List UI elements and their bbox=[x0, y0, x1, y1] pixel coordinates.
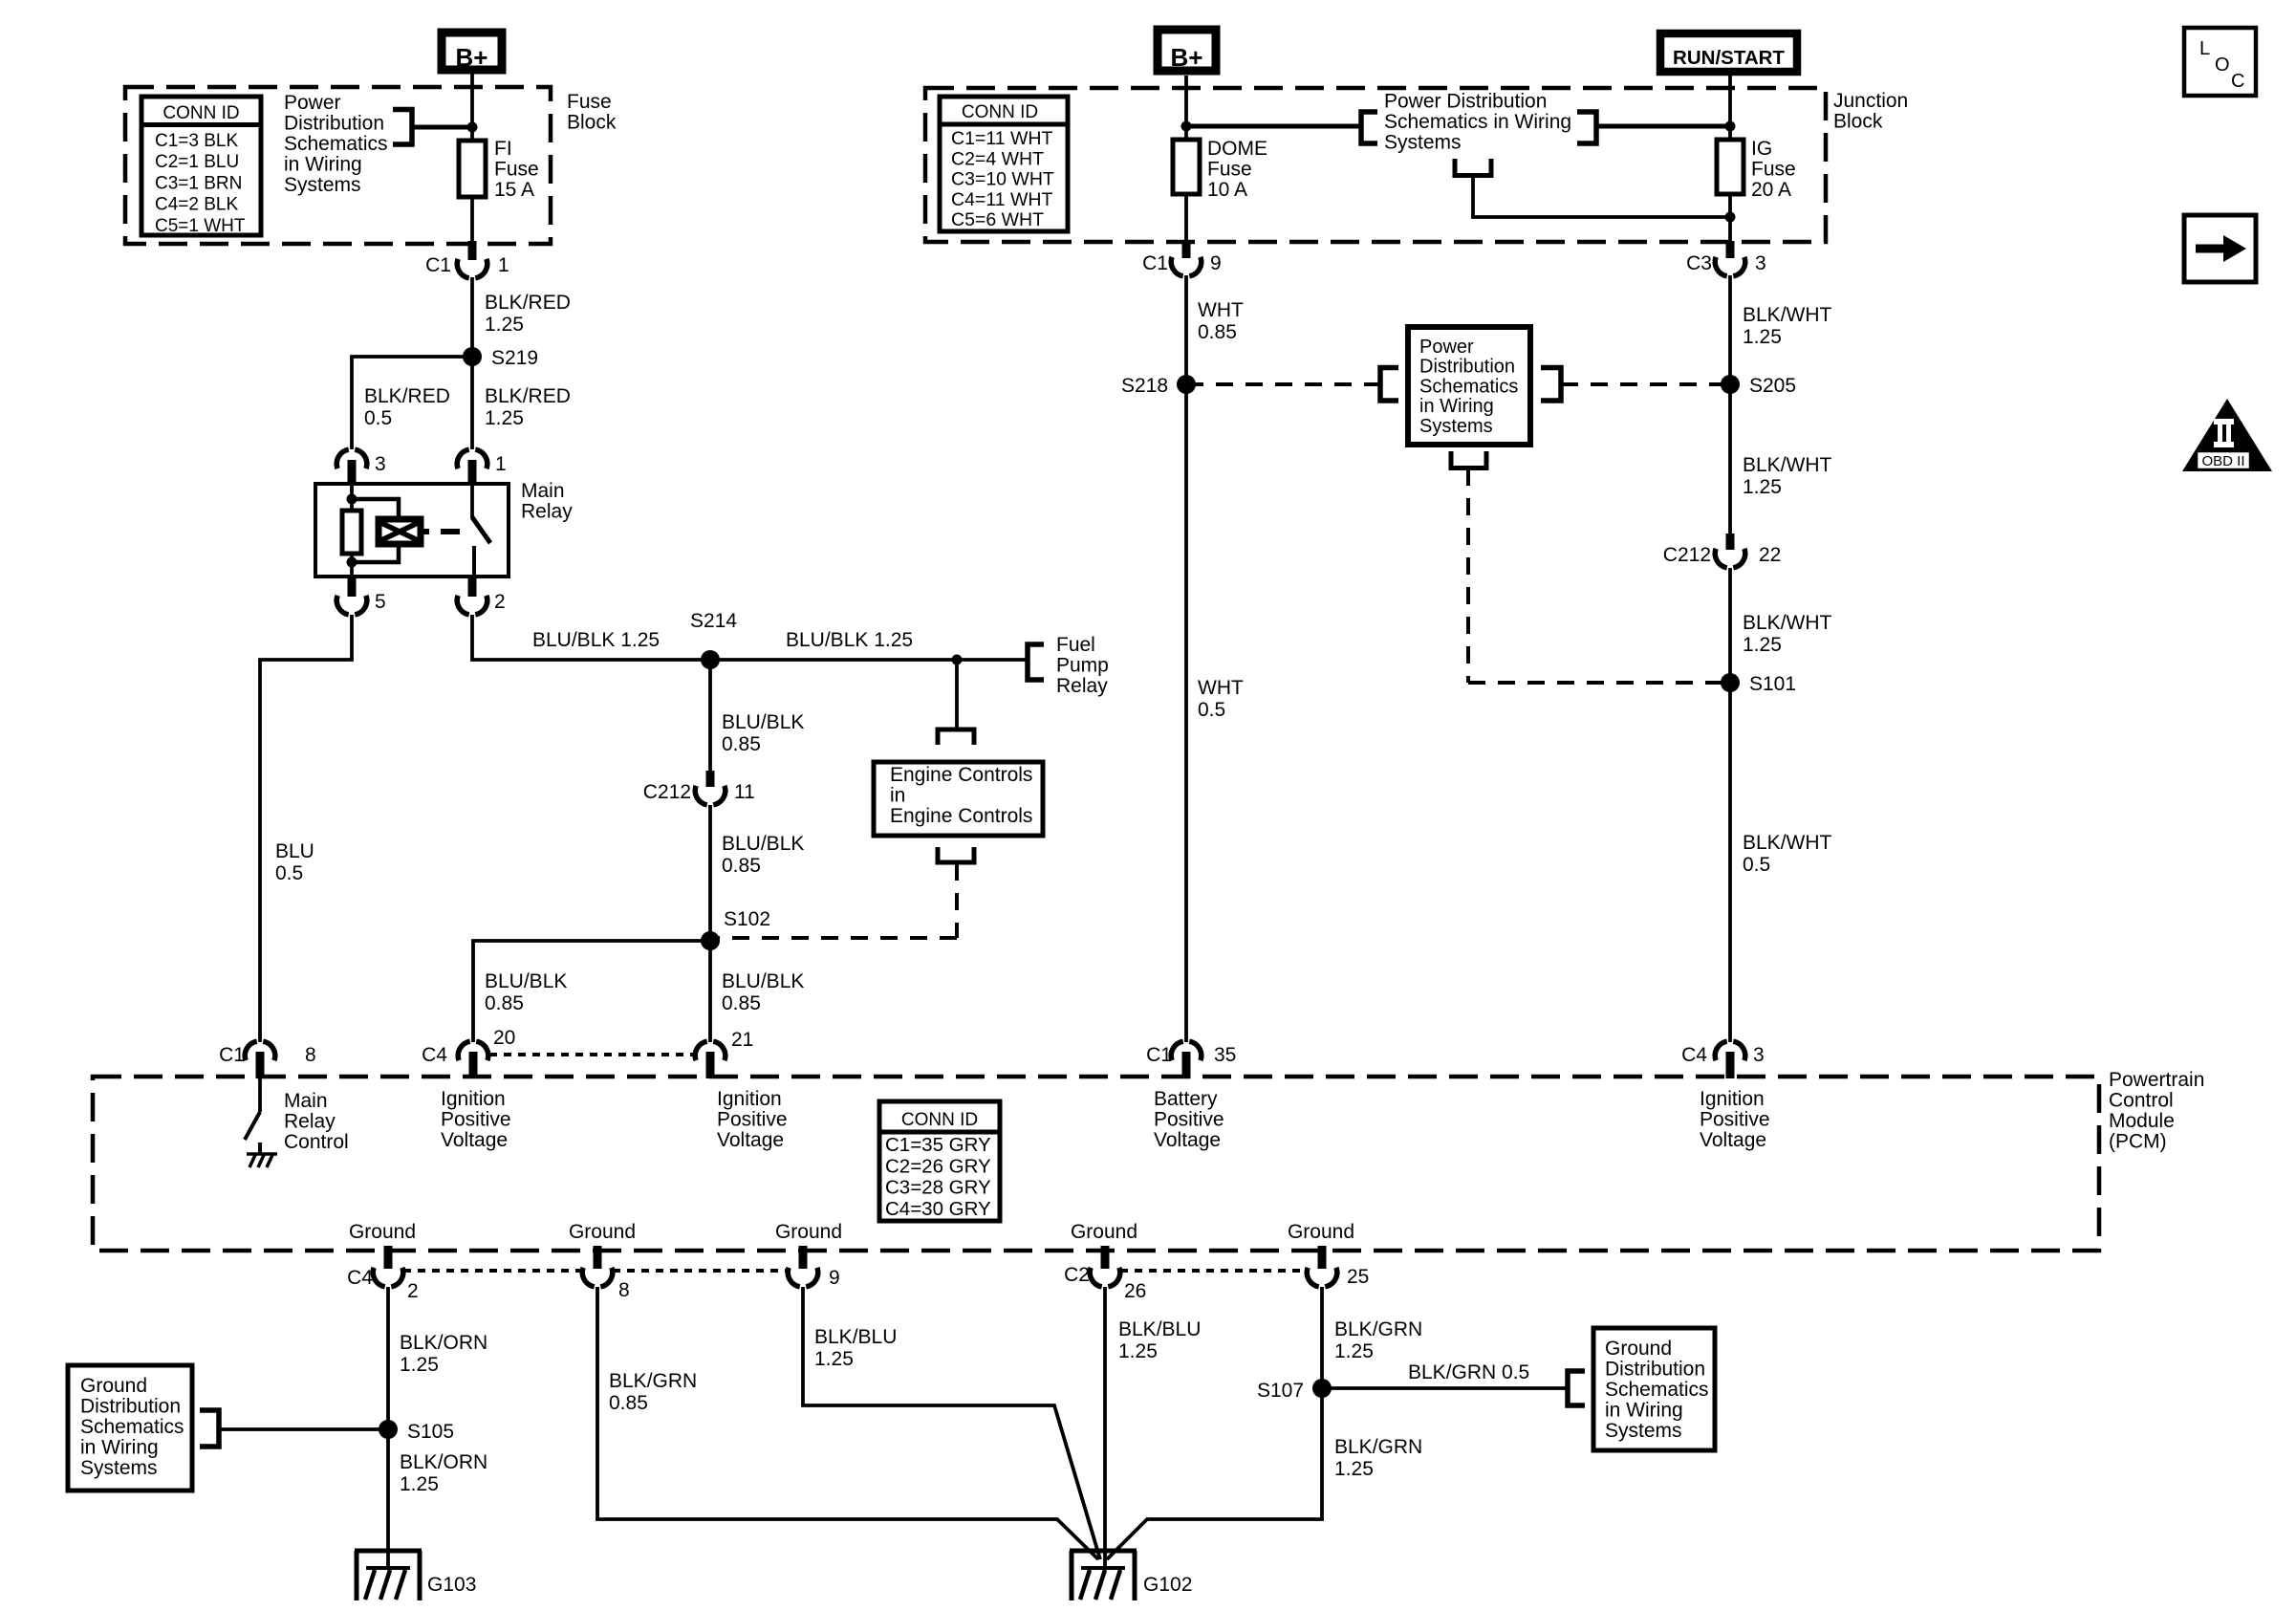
svg-text:Ground: Ground bbox=[1071, 1221, 1137, 1243]
svg-text:BLK/RED: BLK/RED bbox=[485, 385, 571, 407]
svg-text:Voltage: Voltage bbox=[1154, 1129, 1221, 1151]
svg-text:C5=1 WHT: C5=1 WHT bbox=[155, 216, 246, 236]
wire S218 to PCM C1-35, label WHT 0.5 bbox=[1184, 384, 1188, 1028]
wire bracket to S105 bbox=[219, 1427, 388, 1431]
svg-text:Distribution: Distribution bbox=[1605, 1359, 1705, 1381]
svg-text:3: 3 bbox=[1753, 1044, 1765, 1066]
svg-text:9: 9 bbox=[1210, 252, 1222, 274]
svg-text:35: 35 bbox=[1214, 1044, 1236, 1066]
svg-text:C212: C212 bbox=[643, 781, 691, 803]
junction block dashed box bbox=[925, 88, 1826, 242]
dashed link power distribution to S101 bbox=[1466, 468, 1470, 683]
svg-text:Ground: Ground bbox=[775, 1221, 842, 1243]
svg-text:C: C bbox=[2231, 71, 2244, 92]
wire S107 to ground distribution reference, label BLK/GRN 0.5 bbox=[1322, 1386, 1568, 1390]
junction node fuel pump branch bbox=[952, 655, 963, 665]
svg-text:20 A: 20 A bbox=[1751, 179, 1791, 201]
svg-text:C4: C4 bbox=[1681, 1044, 1707, 1066]
wire fuse to connector C1-1 bbox=[470, 197, 474, 242]
main relay box bbox=[315, 484, 509, 577]
connector C4 pin 2 (ground) bbox=[384, 1246, 393, 1269]
svg-text:Ground: Ground bbox=[569, 1221, 636, 1243]
svg-text:21: 21 bbox=[731, 1029, 753, 1051]
wire pin 8 to G102, label BLK/GRN 0.85 bbox=[597, 1287, 1098, 1559]
svg-text:DOME: DOME bbox=[1207, 138, 1267, 160]
svg-text:Systems: Systems bbox=[284, 174, 361, 196]
svg-text:C4=2 BLK: C4=2 BLK bbox=[155, 195, 238, 215]
dotted link pin 8 to pin 9 bbox=[613, 1269, 788, 1273]
reference bracket (left ground distribution) bbox=[200, 1410, 219, 1447]
svg-text:in Wiring: in Wiring bbox=[284, 154, 362, 176]
svg-text:Ground: Ground bbox=[80, 1375, 147, 1397]
svg-text:Schematics: Schematics bbox=[284, 133, 388, 155]
svg-text:BLK/GRN 0.5: BLK/GRN 0.5 bbox=[1408, 1361, 1529, 1383]
svg-text:C1: C1 bbox=[1142, 252, 1168, 274]
fuse block dashed box bbox=[125, 87, 551, 244]
PCM dashed box bbox=[93, 1077, 2099, 1251]
wire C2-26 to G102, label BLK/BLU 1.25 bbox=[1103, 1287, 1107, 1569]
svg-text:Control: Control bbox=[2109, 1090, 2174, 1112]
svg-text:BLK/GRN: BLK/GRN bbox=[1334, 1436, 1422, 1458]
svg-text:C2=26 GRY: C2=26 GRY bbox=[885, 1155, 991, 1177]
wire S219 left branch, label BLK/RED 0.5 bbox=[352, 357, 472, 449]
svg-text:C2: C2 bbox=[1064, 1264, 1090, 1286]
connector C1 pin 1 bbox=[468, 241, 477, 260]
svg-text:Systems: Systems bbox=[80, 1457, 158, 1479]
ground distribution reference box (left) bbox=[68, 1365, 192, 1491]
svg-text:Powertrain: Powertrain bbox=[2109, 1069, 2204, 1091]
svg-text:Power Distribution: Power Distribution bbox=[1384, 91, 1547, 113]
wire S219 down, label BLK/RED 1.25 bbox=[470, 357, 474, 449]
wire DOME fuse to connector C1-9 bbox=[1184, 194, 1188, 242]
wire S105 to G103, label BLK/ORN 1.25 bbox=[386, 1429, 390, 1569]
svg-text:C4=11 WHT: C4=11 WHT bbox=[951, 189, 1052, 210]
wire S214 to fuel pump relay, label BLU/BLK 1.25 bbox=[710, 658, 1026, 662]
svg-text:C5=6 WHT: C5=6 WHT bbox=[951, 209, 1044, 230]
svg-text:BLK/WHT: BLK/WHT bbox=[1743, 832, 1832, 854]
svg-text:CONN ID: CONN ID bbox=[962, 102, 1038, 122]
svg-text:C4: C4 bbox=[422, 1044, 447, 1066]
svg-text:C3=10 WHT: C3=10 WHT bbox=[951, 169, 1054, 190]
svg-text:BLK/ORN: BLK/ORN bbox=[400, 1332, 487, 1354]
CONN ID table (fuse block) bbox=[141, 97, 261, 235]
svg-text:C1: C1 bbox=[219, 1044, 245, 1066]
junction node DOME feed bbox=[1181, 121, 1192, 132]
svg-text:BLU/BLK: BLU/BLK bbox=[722, 970, 804, 992]
svg-text:Fuse: Fuse bbox=[567, 91, 612, 113]
svg-text:1.25: 1.25 bbox=[400, 1354, 439, 1376]
connector relay pin 1 bbox=[457, 449, 468, 468]
reference bracket right (junction block) bbox=[1577, 112, 1596, 143]
dotted link pin 26 to pin 25 bbox=[1120, 1269, 1307, 1273]
svg-text:Systems: Systems bbox=[1605, 1420, 1682, 1442]
svg-text:Fuse: Fuse bbox=[494, 159, 539, 181]
svg-text:26: 26 bbox=[1124, 1280, 1146, 1302]
legend OBD II symbol bbox=[2182, 399, 2272, 471]
wire C212-22 to S101, label BLK/WHT 1.25 bbox=[1728, 568, 1732, 683]
svg-text:11: 11 bbox=[734, 781, 755, 803]
svg-text:1.25: 1.25 bbox=[814, 1348, 854, 1370]
svg-text:IG: IG bbox=[1751, 138, 1772, 160]
wire RUN/START down bbox=[1728, 76, 1732, 140]
svg-text:Ground: Ground bbox=[1288, 1221, 1354, 1243]
splice S105 bbox=[379, 1420, 398, 1439]
wire C4-2 to S105, label BLK/ORN 1.25 bbox=[386, 1287, 390, 1429]
fuse IG 20 A bbox=[1717, 140, 1744, 194]
svg-text:Fuse: Fuse bbox=[1751, 159, 1796, 181]
junction node on B+ feed bbox=[467, 122, 478, 133]
svg-text:1.25: 1.25 bbox=[1334, 1340, 1374, 1362]
svg-text:S105: S105 bbox=[407, 1421, 454, 1443]
svg-text:Engine Controls: Engine Controls bbox=[890, 805, 1032, 827]
svg-text:BLU/BLK: BLU/BLK bbox=[722, 833, 804, 855]
wire C1-1 to S219, label BLK/RED 1.25 bbox=[470, 277, 474, 357]
svg-text:Distribution: Distribution bbox=[1419, 357, 1515, 378]
svg-text:2: 2 bbox=[407, 1280, 419, 1302]
svg-text:Power: Power bbox=[1419, 337, 1474, 358]
wire IG fuse to connector C3-3 bbox=[1728, 194, 1732, 242]
power terminal B+ (junction block) bbox=[1158, 30, 1216, 71]
power terminal B+ (fuse block) bbox=[442, 33, 502, 70]
svg-text:0.85: 0.85 bbox=[1198, 321, 1237, 343]
svg-text:Distribution: Distribution bbox=[80, 1396, 181, 1418]
svg-text:C1=35 GRY: C1=35 GRY bbox=[885, 1134, 991, 1156]
svg-text:1.25: 1.25 bbox=[485, 314, 524, 336]
relay actuation dashed link bbox=[441, 529, 460, 534]
connector relay pin 2 bbox=[468, 577, 477, 597]
svg-text:C1: C1 bbox=[425, 254, 451, 276]
ground G102 bbox=[1070, 1549, 1137, 1554]
svg-text:BLU: BLU bbox=[275, 840, 314, 862]
svg-text:S205: S205 bbox=[1749, 375, 1796, 397]
svg-text:Systems: Systems bbox=[1419, 416, 1493, 437]
connector pin 9 (ground) bbox=[799, 1246, 808, 1269]
wire S214 down to C212-11, label BLU/BLK 0.85 bbox=[708, 660, 712, 773]
svg-text:1.25: 1.25 bbox=[485, 407, 524, 429]
svg-text:Distribution: Distribution bbox=[284, 113, 384, 135]
power distribution reference box bbox=[1408, 327, 1530, 445]
svg-text:1.25: 1.25 bbox=[1743, 634, 1782, 656]
svg-text:1.25: 1.25 bbox=[1334, 1458, 1374, 1480]
svg-text:8: 8 bbox=[305, 1044, 316, 1066]
svg-text:BLK/GRN: BLK/GRN bbox=[609, 1370, 697, 1392]
svg-text:Ground: Ground bbox=[1605, 1338, 1672, 1360]
svg-text:Main: Main bbox=[284, 1090, 328, 1112]
svg-text:Control: Control bbox=[284, 1131, 349, 1153]
svg-text:CONN ID: CONN ID bbox=[162, 103, 239, 123]
svg-text:BLU/BLK 1.25: BLU/BLK 1.25 bbox=[786, 629, 913, 651]
wire S205 to C212-22, label BLK/WHT 1.25 bbox=[1728, 384, 1732, 535]
svg-text:Block: Block bbox=[567, 112, 617, 134]
svg-text:Relay: Relay bbox=[1056, 675, 1108, 697]
svg-text:S101: S101 bbox=[1749, 673, 1796, 695]
wire relay pin 5 to PCM C1-8, label BLU 0.5 bbox=[260, 615, 352, 1028]
svg-text:RUN/START: RUN/START bbox=[1673, 47, 1785, 69]
svg-text:Fuse: Fuse bbox=[1207, 159, 1252, 181]
svg-text:in Wiring: in Wiring bbox=[1419, 396, 1494, 417]
ground G103 bbox=[355, 1549, 422, 1554]
svg-text:S107: S107 bbox=[1257, 1380, 1304, 1402]
reference bracket left (junction block) bbox=[1361, 112, 1377, 143]
svg-text:0.5: 0.5 bbox=[275, 862, 303, 884]
svg-text:B+: B+ bbox=[456, 43, 488, 72]
svg-text:Ignition: Ignition bbox=[441, 1088, 506, 1110]
svg-text:BLK/BLU: BLK/BLU bbox=[814, 1326, 897, 1348]
svg-text:CONN ID: CONN ID bbox=[901, 1110, 978, 1130]
svg-text:WHT: WHT bbox=[1198, 677, 1244, 699]
ground distribution reference box (right) bbox=[1593, 1328, 1715, 1450]
splice S101 bbox=[1721, 673, 1740, 692]
relay switch contact bbox=[470, 484, 474, 518]
connector C1 pin 8 (PCM) bbox=[258, 1028, 262, 1042]
connector C2 pin 26 (ground) bbox=[1101, 1246, 1110, 1269]
wire S107 to G102, label BLK/GRN 1.25 bbox=[1107, 1388, 1322, 1559]
bracket below engine controls box bbox=[938, 847, 974, 862]
svg-text:BLK/WHT: BLK/WHT bbox=[1743, 454, 1832, 476]
svg-text:8: 8 bbox=[618, 1279, 630, 1301]
svg-text:C4: C4 bbox=[347, 1267, 373, 1289]
svg-text:3: 3 bbox=[375, 453, 386, 475]
svg-text:Relay: Relay bbox=[284, 1111, 336, 1133]
wire pin 9 to G102, label BLK/BLU 1.25 bbox=[803, 1287, 1100, 1559]
svg-text:C3=28 GRY: C3=28 GRY bbox=[885, 1177, 991, 1199]
svg-text:22: 22 bbox=[1759, 544, 1781, 566]
svg-text:0.85: 0.85 bbox=[722, 992, 761, 1014]
wire down to engine controls bracket bbox=[955, 660, 959, 728]
connector relay pin 5 bbox=[348, 577, 357, 597]
wire S101 to PCM C4-3, label BLK/WHT 0.5 bbox=[1728, 683, 1732, 1028]
svg-text:in Wiring: in Wiring bbox=[1605, 1400, 1683, 1422]
svg-text:20: 20 bbox=[493, 1027, 515, 1049]
svg-text:S219: S219 bbox=[491, 347, 538, 369]
svg-text:Voltage: Voltage bbox=[441, 1129, 508, 1151]
svg-text:(PCM): (PCM) bbox=[2109, 1131, 2167, 1153]
ignition terminal RUN/START bbox=[1660, 33, 1797, 72]
svg-text:C1=3 BLK: C1=3 BLK bbox=[155, 131, 238, 151]
svg-text:C1=11 WHT: C1=11 WHT bbox=[951, 128, 1052, 149]
bus wire DOME to reference bracket bbox=[1186, 124, 1361, 129]
svg-text:Ignition: Ignition bbox=[1700, 1088, 1765, 1110]
svg-text:O: O bbox=[2215, 54, 2230, 76]
svg-text:0.5: 0.5 bbox=[1198, 699, 1225, 721]
svg-text:in Wiring: in Wiring bbox=[80, 1437, 159, 1459]
svg-text:BLK/ORN: BLK/ORN bbox=[400, 1451, 487, 1473]
svg-text:Voltage: Voltage bbox=[1700, 1129, 1766, 1151]
svg-text:C4=30 GRY: C4=30 GRY bbox=[885, 1198, 991, 1220]
connector C3 pin 3 bbox=[1726, 241, 1735, 258]
svg-text:BLU/BLK 1.25: BLU/BLK 1.25 bbox=[532, 629, 660, 651]
svg-text:C2=1 BLU: C2=1 BLU bbox=[155, 152, 239, 172]
svg-text:BLK/WHT: BLK/WHT bbox=[1743, 304, 1832, 326]
wire C3-3 to S205, label BLK/WHT 1.25 bbox=[1728, 275, 1732, 384]
svg-text:Main: Main bbox=[521, 480, 565, 502]
svg-text:Positive: Positive bbox=[717, 1109, 788, 1131]
svg-text:C1: C1 bbox=[1146, 1044, 1172, 1066]
connector pin 8 (ground) bbox=[594, 1246, 602, 1269]
reference bracket left (power distribution) bbox=[1380, 368, 1398, 402]
svg-text:Pump: Pump bbox=[1056, 655, 1109, 677]
svg-text:Systems: Systems bbox=[1384, 132, 1462, 154]
svg-text:BLU/BLK: BLU/BLK bbox=[485, 970, 567, 992]
relay coil (X box) bbox=[379, 519, 421, 544]
dashed link engine controls to S102 bbox=[955, 863, 959, 938]
connector relay pin 3 bbox=[336, 449, 348, 468]
svg-text:Power: Power bbox=[284, 92, 341, 114]
svg-text:FI: FI bbox=[494, 138, 512, 160]
svg-text:C2=4 WHT: C2=4 WHT bbox=[951, 148, 1044, 169]
svg-text:1: 1 bbox=[498, 254, 509, 276]
connector pin 21 (PCM) bbox=[708, 1028, 712, 1042]
svg-text:BLU/BLK: BLU/BLK bbox=[722, 711, 804, 733]
wire C1-9 to S218, label WHT 0.85 bbox=[1184, 275, 1188, 384]
connector pin 25 (ground) bbox=[1318, 1246, 1327, 1269]
wire C212-11 to S102, label BLU/BLK 0.85 bbox=[708, 805, 712, 941]
svg-text:1.25: 1.25 bbox=[1743, 326, 1782, 348]
svg-text:2: 2 bbox=[494, 591, 506, 613]
reference bracket (right ground distribution) bbox=[1568, 1371, 1585, 1405]
splice S219 bbox=[463, 347, 482, 366]
connector C4 pin 3 (PCM) bbox=[1728, 1028, 1732, 1042]
svg-text:S102: S102 bbox=[724, 908, 770, 930]
svg-text:Ignition: Ignition bbox=[717, 1088, 782, 1110]
reference bracket below (junction block) bbox=[1455, 159, 1491, 176]
svg-text:0.5: 0.5 bbox=[364, 407, 392, 429]
svg-text:WHT: WHT bbox=[1198, 299, 1244, 321]
legend forward arrow box bbox=[2184, 215, 2256, 282]
svg-text:Positive: Positive bbox=[1154, 1109, 1224, 1131]
svg-text:10 A: 10 A bbox=[1207, 179, 1247, 201]
splice S107 bbox=[1312, 1379, 1332, 1398]
reference bracket below (power distribution) bbox=[1451, 451, 1486, 468]
connector C1 pin 9 bbox=[1182, 241, 1191, 258]
svg-text:Schematics: Schematics bbox=[1419, 376, 1518, 397]
wire B+ to FI fuse bbox=[470, 74, 474, 141]
CONN ID table (PCM) bbox=[879, 1101, 1000, 1221]
svg-text:1.25: 1.25 bbox=[1118, 1340, 1158, 1362]
svg-text:OBD II: OBD II bbox=[2201, 453, 2244, 469]
fuse DOME 10 A bbox=[1173, 140, 1200, 194]
svg-text:0.85: 0.85 bbox=[722, 855, 761, 877]
svg-text:1.25: 1.25 bbox=[1743, 476, 1782, 498]
svg-text:G102: G102 bbox=[1143, 1574, 1192, 1596]
svg-text:C3: C3 bbox=[1686, 252, 1712, 274]
svg-text:S218: S218 bbox=[1121, 375, 1168, 397]
svg-text:Positive: Positive bbox=[441, 1109, 511, 1131]
main relay control switch inside PCM bbox=[258, 1078, 262, 1112]
fuel pump relay bracket bbox=[1028, 644, 1044, 680]
svg-text:BLK/WHT: BLK/WHT bbox=[1743, 612, 1832, 634]
svg-text:5: 5 bbox=[375, 591, 386, 613]
svg-text:25: 25 bbox=[1347, 1266, 1369, 1288]
wire B+ to DOME fuse bbox=[1184, 76, 1188, 140]
svg-text:0.85: 0.85 bbox=[722, 733, 761, 755]
dotted link pin 2 to pin 8 bbox=[403, 1269, 582, 1273]
fuse FI 15 A bbox=[459, 141, 486, 197]
svg-text:1.25: 1.25 bbox=[400, 1473, 439, 1495]
splice S205 bbox=[1721, 375, 1740, 394]
wire pin 25 to S107, label BLK/GRN 1.25 bbox=[1320, 1287, 1324, 1388]
wire lower reference path to IG fuse output bbox=[1473, 176, 1730, 218]
svg-text:Fuel: Fuel bbox=[1056, 634, 1095, 656]
connector C212 pin 11 bbox=[706, 771, 715, 787]
svg-text:1: 1 bbox=[495, 453, 507, 475]
connector C212 pin 22 bbox=[1726, 533, 1735, 550]
svg-text:Engine Controls: Engine Controls bbox=[890, 764, 1032, 786]
bracket above engine controls box bbox=[938, 729, 974, 745]
resistor (relay) bbox=[342, 511, 361, 554]
svg-text:L: L bbox=[2199, 38, 2210, 59]
reference bracket right (power distribution) bbox=[1541, 368, 1561, 402]
svg-text:G103: G103 bbox=[427, 1574, 476, 1596]
svg-text:Module: Module bbox=[2109, 1110, 2175, 1132]
svg-text:Schematics: Schematics bbox=[80, 1416, 184, 1438]
svg-text:BLK/GRN: BLK/GRN bbox=[1334, 1318, 1422, 1340]
wire S102 to PCM pins 20 and 21 bbox=[473, 941, 710, 1028]
reference bracket (fuse block) bbox=[393, 110, 412, 145]
svg-text:BLK/BLU: BLK/BLU bbox=[1118, 1318, 1201, 1340]
svg-text:Block: Block bbox=[1833, 111, 1883, 133]
engine controls box bbox=[874, 762, 1043, 836]
connector C1 pin 35 (PCM) bbox=[1184, 1028, 1188, 1042]
svg-text:3: 3 bbox=[1755, 252, 1766, 274]
svg-text:Relay: Relay bbox=[521, 501, 573, 523]
wire bracket to B+ feed bbox=[412, 125, 472, 130]
svg-text:C212: C212 bbox=[1663, 544, 1711, 566]
svg-text:Schematics in Wiring: Schematics in Wiring bbox=[1384, 111, 1571, 133]
chassis ground (main relay control) bbox=[247, 1152, 277, 1156]
svg-text:BLK/RED: BLK/RED bbox=[485, 292, 571, 314]
dashed link to S205 bbox=[1561, 382, 1730, 386]
svg-text:BLK/RED: BLK/RED bbox=[364, 385, 450, 407]
wire bracket to RUN/START feed bbox=[1596, 124, 1730, 129]
svg-text:9: 9 bbox=[829, 1267, 840, 1289]
splice S214 bbox=[701, 650, 720, 669]
relay coil branch wires bbox=[352, 499, 399, 519]
svg-text:Battery: Battery bbox=[1154, 1088, 1218, 1110]
svg-text:B+: B+ bbox=[1171, 43, 1203, 72]
wire relay pin 2 to S214, label BLU/BLK 1.25 bbox=[472, 615, 710, 660]
svg-text:S214: S214 bbox=[690, 610, 737, 632]
CONN ID table (junction block) bbox=[940, 97, 1068, 231]
svg-text:Positive: Positive bbox=[1700, 1109, 1770, 1131]
svg-text:Voltage: Voltage bbox=[717, 1129, 784, 1151]
legend LOC box bbox=[2184, 28, 2256, 96]
dashed link S218 to power distribution reference bbox=[1186, 382, 1380, 386]
relay coil resistor branch bbox=[350, 484, 354, 511]
svg-text:Schematics: Schematics bbox=[1605, 1379, 1709, 1401]
svg-text:15 A: 15 A bbox=[494, 179, 534, 201]
svg-text:0.85: 0.85 bbox=[609, 1392, 648, 1414]
svg-text:Junction: Junction bbox=[1833, 90, 1908, 112]
svg-text:in: in bbox=[890, 785, 905, 807]
splice S218 bbox=[1177, 375, 1196, 394]
dotted link pin 20 to pin 21 bbox=[489, 1053, 694, 1056]
svg-text:0.85: 0.85 bbox=[485, 992, 524, 1014]
svg-text:Ground: Ground bbox=[349, 1221, 416, 1243]
svg-text:C3=1 BRN: C3=1 BRN bbox=[155, 173, 242, 193]
svg-text:0.5: 0.5 bbox=[1743, 854, 1770, 876]
connector C4 pin 20 (PCM) bbox=[471, 1028, 475, 1042]
